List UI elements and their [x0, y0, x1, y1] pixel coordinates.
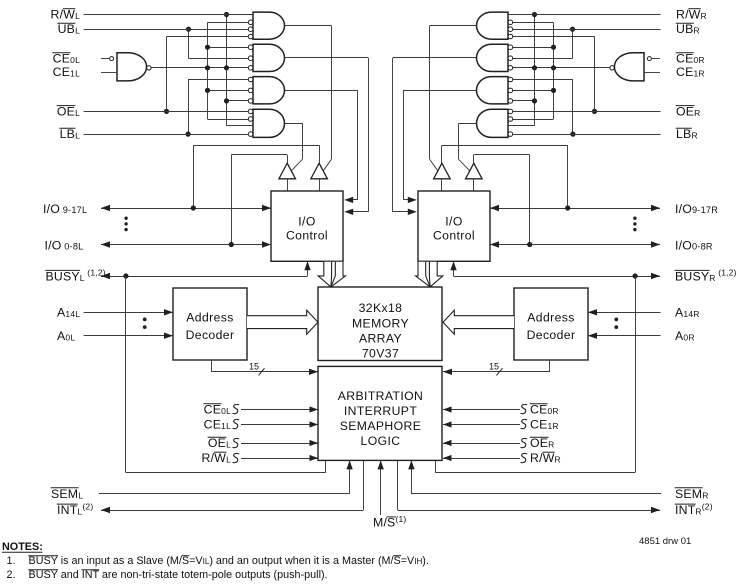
- svg-text:70V37: 70V37: [362, 347, 399, 361]
- svg-text:I/O: I/O: [445, 214, 462, 228]
- svg-text:15: 15: [489, 362, 499, 372]
- svg-text:MEMORY: MEMORY: [352, 316, 409, 330]
- svg-text:Control: Control: [433, 229, 475, 243]
- svg-text:I/O 9-17L: I/O 9-17L: [43, 202, 87, 216]
- svg-text:LOGIC: LOGIC: [361, 434, 401, 448]
- svg-text:I/O0-8R: I/O0-8R: [675, 239, 713, 253]
- svg-text:Address: Address: [527, 311, 575, 325]
- svg-text:INTERRUPT: INTERRUPT: [344, 404, 417, 418]
- svg-text:32Kx18: 32Kx18: [359, 301, 403, 315]
- svg-text:Decoder: Decoder: [186, 328, 235, 342]
- svg-text:BUSY is an input as a Slave (M: BUSY is an input as a Slave (M/S=VIL) an…: [29, 555, 429, 567]
- svg-text:Control: Control: [286, 229, 328, 243]
- svg-text:Address: Address: [186, 311, 234, 325]
- svg-text:1.: 1.: [7, 555, 16, 567]
- svg-text:BUSY and INT are non-tri-state: BUSY and INT are non-tri-state totem-pol…: [29, 569, 328, 581]
- svg-text:15: 15: [249, 362, 259, 372]
- svg-text:I/O9-17R: I/O9-17R: [675, 202, 718, 216]
- svg-text:Decoder: Decoder: [527, 328, 576, 342]
- svg-text:I/O: I/O: [298, 214, 315, 228]
- svg-text:NOTES:: NOTES:: [2, 541, 43, 553]
- svg-text:SEMAPHORE: SEMAPHORE: [340, 419, 421, 433]
- svg-text:ARBITRATION: ARBITRATION: [338, 389, 423, 403]
- svg-text:2.: 2.: [7, 569, 16, 581]
- svg-text:4851 drw 01: 4851 drw 01: [639, 536, 691, 547]
- svg-text:I/O 0-8L: I/O 0-8L: [45, 239, 84, 253]
- svg-text:ARRAY: ARRAY: [359, 331, 402, 345]
